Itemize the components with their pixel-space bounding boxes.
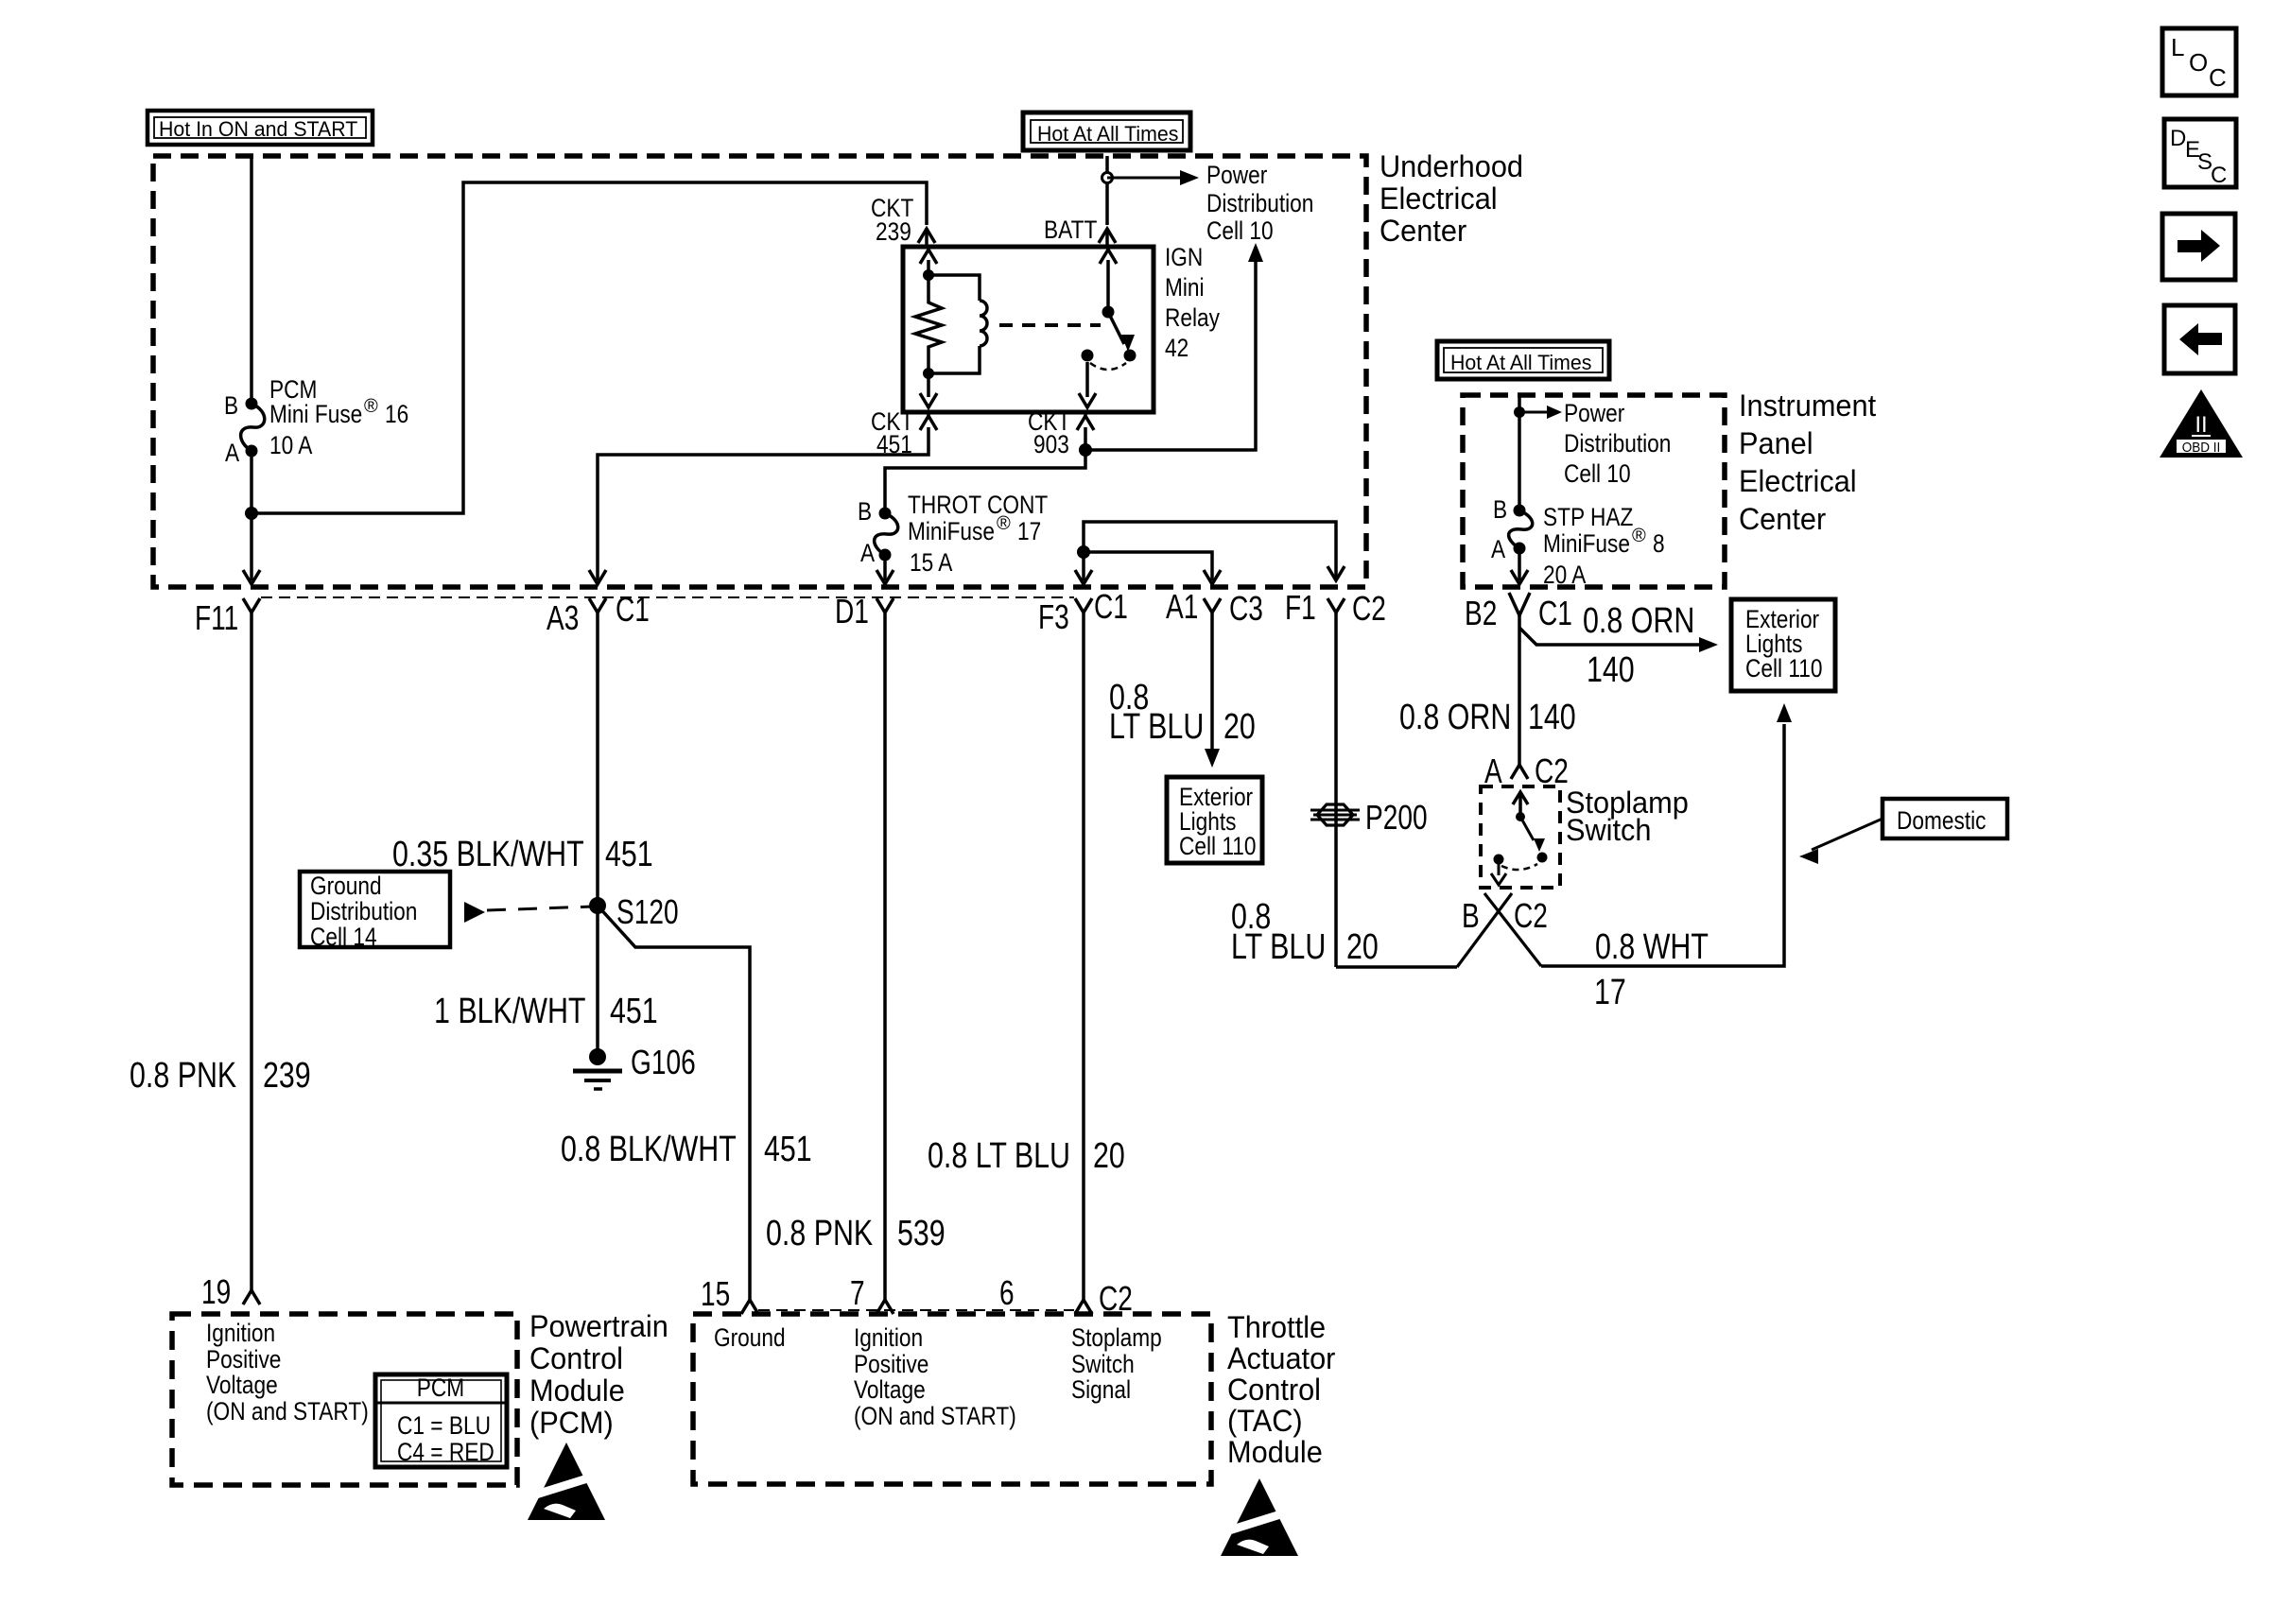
relay coil (inductor) branch [928,275,987,373]
label: C2 (F1) [1352,589,1386,628]
svg-text:C1: C1 [616,590,650,629]
relay switch blade [1108,312,1135,352]
svg-text:C2: C2 [1535,752,1569,790]
svg-text:42: 42 [1165,334,1189,362]
label: 0.8 LT BLU 20 [928,1136,1125,1176]
label: Ignition Positive Voltage (ON and START) [TAC] [854,1323,1016,1430]
junction dot on F3 riser [1077,545,1090,559]
connector F11 [243,598,260,1290]
svg-text:140: 140 [1528,698,1576,737]
svg-text:F1: F1 [1285,588,1316,627]
ESD symbol (TAC) [1214,1478,1305,1556]
svg-text:Distribution: Distribution [1206,189,1313,217]
stoplamp switch contact dot (left) [1494,855,1504,865]
connector A3/C1 [589,598,606,906]
instrument panel electrical center dashed box [1463,395,1725,587]
label: 0.8 ORN (horizontal) [1583,601,1694,641]
svg-text:C2: C2 [1514,896,1548,935]
svg-text:C: C [2211,163,2227,188]
svg-text:D1: D1 [835,592,869,631]
svg-text:Domestic: Domestic [1897,806,1987,835]
label: Power Distribution Cell 10 (top) [1206,161,1313,245]
svg-text:C2: C2 [1352,589,1386,628]
wire: branch to A1/C3 [1084,552,1221,584]
connector: CKT 451 out of relay [920,412,937,430]
connector F3/C1 [1075,598,1092,1300]
svg-text:Ignition: Ignition [854,1323,923,1352]
svg-text:Actuator: Actuator [1227,1341,1336,1375]
svg-text:C4 = RED: C4 = RED [397,1438,495,1466]
label: P200 [1365,798,1428,837]
svg-text:C1: C1 [1538,594,1572,632]
svg-text:Control: Control [1227,1373,1321,1407]
connector B2/C1 [1509,593,1530,628]
svg-text:20: 20 [1093,1136,1125,1176]
wire: 0.8 LT BLU 20 to F1/C2 [1336,965,1457,969]
svg-text:A3: A3 [547,598,579,637]
icon: LOC box [2162,28,2236,95]
svg-text:Powertrain: Powertrain [529,1309,668,1343]
header box: Hot In ON and START [147,111,373,145]
svg-text:D: D [2170,126,2186,151]
svg-text:Cell 110: Cell 110 [1179,832,1257,860]
fuse: PCM Mini Fuse 16 10A element [241,404,265,451]
svg-text:20: 20 [1223,707,1256,747]
svg-text:17: 17 [1017,517,1041,545]
connector D1 [876,598,894,1300]
label: Stoplamp Switch [1566,786,1689,847]
label: D1 [835,592,869,631]
wire: IP feed [1518,395,1521,510]
svg-text:LT BLU: LT BLU [1231,927,1326,967]
svg-text:F11: F11 [195,598,238,637]
label: Throttle Actuator Control (TAC) Module [1227,1310,1336,1469]
connector crossing B X C2 [1457,893,1541,967]
label: C2 (crossing) [1514,896,1548,935]
svg-text:®: ® [997,513,1011,534]
label: pin B (THROT fuse) [858,497,872,526]
label: Power Distribution Cell 10 (IP) [1564,399,1671,488]
relay coil top junction dot [923,269,934,281]
open circle junction on BATT wire [1102,173,1113,183]
svg-text:0.8 PNK: 0.8 PNK [766,1214,873,1253]
wire: F1/C2 riser and branch rail [1075,522,1345,584]
splice S120 dot [589,897,606,914]
fuse: STP HAZ MiniFuse 8 element [1509,510,1533,548]
connector line (underhood bottom, thin dashed) [261,596,1074,598]
svg-text:(PCM): (PCM) [529,1406,614,1440]
connector pin 6 [1075,1300,1092,1314]
fuse F8 pin A dot [1514,543,1526,555]
label: BATT [1044,216,1097,244]
svg-text:(ON and START): (ON and START) [206,1397,369,1425]
stoplamp switch input arrow [1513,792,1528,817]
stoplamp switch contact dot (right) [1537,853,1548,863]
connector pin 19 [243,1290,260,1304]
svg-text:®: ® [364,396,378,417]
connector A1/C3 [1204,598,1221,751]
svg-text:239: 239 [876,217,911,246]
wire: CKT903 branch to Power Distribution arrow [1085,243,1263,450]
svg-text:A: A [225,439,239,467]
svg-text:10 A: 10 A [269,431,312,459]
underhood electrical center dashed box [153,156,1366,587]
wire: CKT451 jog to A3/C1 [589,427,928,584]
fuse F16 pin B dot [246,398,258,410]
label: A (stoplamp pin) [1484,752,1502,790]
relay coil output arrow (down to CKT 451) [920,373,937,407]
svg-text:Electrical: Electrical [1739,464,1857,498]
label: 0.8 ORN 140 (vertical) [1399,698,1576,737]
svg-text:Stoplamp: Stoplamp [1071,1323,1162,1352]
label: 1 BLK/WHT 451 [434,992,658,1031]
icon: DESC box [2164,119,2236,188]
powertrain control module dashed box [172,1314,517,1485]
junction dot IP feed [1514,406,1525,418]
svg-text:0.8 PNK: 0.8 PNK [130,1056,236,1096]
label: pin A (THROT fuse) [860,539,875,567]
label: F11 [195,598,238,637]
fuse: THROT CONT MiniFuse 17 element [875,513,898,555]
throttle actuator control module dashed box [693,1314,1211,1484]
svg-text:451: 451 [610,992,658,1031]
svg-text:Mini Fuse: Mini Fuse [269,400,362,428]
label: 0.8 WHT [1595,927,1709,967]
svg-text:0.8 BLK/WHT: 0.8 BLK/WHT [561,1130,737,1169]
ground distribution cell 14 box [300,872,450,951]
svg-text:PCM: PCM [417,1373,464,1402]
relay switch pivot dot [1102,306,1115,319]
relay dashed actuation link (coil to switch) [999,323,1101,327]
svg-text:STP HAZ: STP HAZ [1543,503,1633,531]
svg-text:Center: Center [1379,214,1467,248]
svg-text:C3: C3 [1229,589,1263,628]
wire: S120 to G106 [596,906,599,1057]
arrow+dashed link to S120 [464,902,593,923]
label: A1 [1166,587,1198,626]
svg-text:17: 17 [1594,973,1626,1012]
label: Stoplamp Switch Signal [TAC] [1071,1323,1162,1404]
label: F1 [1285,588,1316,627]
label: 6 [999,1273,1015,1312]
svg-text:B: B [224,391,238,420]
wire: BATT feed from top border [1105,156,1109,225]
wire: fuse F17 to D1 connector [876,555,894,584]
relay switch output contact dot [1082,350,1094,362]
domestic callout box [1883,799,2007,838]
svg-text:15: 15 [701,1274,730,1313]
svg-text:O: O [2189,48,2208,77]
stoplamp switch blade [1520,817,1545,852]
label: Ignition Positive Voltage (ON and START) [PCM] [206,1319,369,1425]
icon: forward arrow box [2162,214,2235,280]
label: C2 (stoplamp pin) [1535,752,1569,790]
svg-text:Distribution: Distribution [1564,429,1671,458]
connector A/C2 (stoplamp) [1511,765,1528,779]
resistor inside relay [915,275,942,373]
svg-text:Power: Power [1564,399,1624,427]
svg-text:C1: C1 [1094,587,1128,626]
label: B2 [1465,594,1497,632]
svg-text:Throttle: Throttle [1227,1310,1326,1344]
label: 0.8 LT BLU 20 (crossing) [1231,897,1379,967]
label: pin B (STP HAZ fuse) [1493,495,1507,524]
stoplamp switch output arrow [1491,859,1506,885]
svg-text:A1: A1 [1166,587,1198,626]
label: Underhood Electrical Center [1379,149,1523,248]
connector pin 7 [876,1300,894,1314]
label: STP HAZ MiniFuse 8 20 A [1543,503,1665,589]
label: Powertrain Control Module (PCM) [529,1309,668,1440]
svg-text:P200: P200 [1365,798,1428,837]
label: C3 [1229,589,1263,628]
svg-text:THROT CONT: THROT CONT [908,491,1048,519]
PCM connector color table [375,1373,507,1467]
ESD symbol (PCM) [521,1443,612,1520]
svg-text:LT BLU: LT BLU [1109,707,1204,747]
label: F3 [1038,597,1069,636]
relay coil bottom junction dot [923,368,934,379]
relay K42 box [903,247,1154,412]
svg-text:1 BLK/WHT: 1 BLK/WHT [434,992,586,1031]
svg-text:0.8 ORN: 0.8 ORN [1583,601,1694,641]
stoplamp switch dashed box [1481,786,1560,888]
icon: OBD II triangle [2160,389,2243,458]
stoplamp switch pivot dot [1516,812,1525,821]
svg-text:Center: Center [1739,502,1827,536]
label: C1 (F3) [1094,587,1128,626]
svg-text:7: 7 [850,1273,865,1312]
arrow: domestic callout pointer [1799,819,1883,864]
label: A3 [547,598,579,637]
svg-text:Power: Power [1206,161,1267,189]
svg-text:®: ® [1632,526,1646,546]
label: C2 (TAC) [1099,1279,1133,1318]
wire: fuse F8 to B2/C1 [1511,548,1528,584]
svg-text:C: C [2209,63,2227,92]
wire: 0.8 ORN 140 branch to exterior lights (right) [1519,628,1718,652]
svg-text:Control: Control [529,1341,623,1375]
connector: BATT into relay [1099,229,1116,247]
svg-text:Switch: Switch [1071,1350,1135,1378]
svg-text:IGN: IGN [1165,243,1203,271]
svg-text:MiniFuse: MiniFuse [1543,529,1630,558]
svg-text:Ground: Ground [310,872,382,900]
svg-text:(TAC): (TAC) [1227,1404,1303,1438]
svg-text:Voltage: Voltage [206,1371,278,1399]
svg-text:20 A: 20 A [1543,561,1586,589]
relay switch common arrow (up, from BATT) [1100,250,1117,312]
svg-text:A: A [1484,752,1502,790]
wire: CKT903 down to branch dot [1084,427,1087,450]
svg-text:C2: C2 [1099,1279,1133,1318]
label: 7 [850,1273,865,1312]
wire: ORN 140 down to stoplamp switch [1518,628,1521,765]
svg-text:B: B [1493,495,1507,524]
label: 0.8 PNK 539 [766,1214,946,1253]
svg-text:451: 451 [605,835,653,874]
svg-text:Cell 110: Cell 110 [1745,654,1823,682]
svg-text:539: 539 [897,1214,946,1253]
svg-text:903: 903 [1033,430,1069,458]
svg-text:Cell 14: Cell 14 [310,923,377,951]
fuse F17 pin A dot [879,549,892,561]
junction dot on F11 wire [245,507,258,520]
svg-text:Instrument: Instrument [1739,389,1876,423]
svg-text:15 A: 15 A [910,548,952,577]
fuse F8 pin B dot [1514,505,1526,517]
svg-text:A: A [860,539,875,567]
svg-text:(ON and START): (ON and START) [854,1402,1016,1430]
wire: jog from fuse output to CKT239 feed [252,182,927,513]
svg-text:0.35 BLK/WHT: 0.35 BLK/WHT [392,835,584,874]
label: C1 (B2) [1538,594,1572,632]
label: CKT 239 [871,194,913,246]
svg-text:Electrical: Electrical [1379,181,1498,216]
svg-text:BATT: BATT [1044,216,1097,244]
svg-text:Module: Module [1227,1435,1323,1469]
svg-text:C1 = BLU: C1 = BLU [397,1411,491,1440]
exterior lights cell 110 box (left) [1167,777,1262,863]
svg-text:0.8 LT BLU: 0.8 LT BLU [928,1136,1070,1176]
label: B (crossing) [1462,896,1480,935]
relay coil feed arrow (up, left pin) [920,250,937,275]
header box: Hot At All Times (instrument panel) [1437,341,1609,379]
label: 0.8 BLK/WHT 451 [561,1130,812,1169]
relay switch output arrow (down to CKT 903) [1079,362,1096,407]
svg-text:Distribution: Distribution [310,897,417,925]
svg-text:451: 451 [764,1130,812,1169]
svg-text:239: 239 [263,1056,311,1096]
label: THROT CONT MiniFuse 17 15 A [908,491,1048,577]
svg-text:G106: G106 [631,1043,696,1081]
svg-text:Signal: Signal [1071,1375,1131,1404]
label: 17 [1594,973,1626,1012]
svg-text:6: 6 [999,1273,1015,1312]
arrow: to Power Distribution Cell 10 (IP) [1519,406,1562,419]
stoplamp switch dashed travel arc [1501,864,1537,870]
svg-text:L: L [2171,33,2184,61]
label: 15 [701,1274,730,1313]
connector pin 15 [741,1300,758,1314]
label: CKT 451 [871,407,913,458]
svg-text:Panel: Panel [1739,426,1813,460]
svg-text:Positive: Positive [854,1350,928,1378]
svg-text:Ground: Ground [714,1323,786,1352]
fuse F17 pin B dot [879,508,892,520]
label: pin B (PCM fuse) [224,391,238,420]
label: 0.35 BLK/WHT 451 [392,835,653,874]
wire: hot feed into PCM fuse (F11 branch) [250,156,253,404]
label: IGN Mini Relay 42 [1165,243,1220,362]
svg-text:19: 19 [201,1272,231,1311]
svg-text:B: B [1462,896,1480,935]
label: Ground [TAC] [714,1323,786,1352]
svg-text:Switch: Switch [1566,813,1652,847]
svg-text:0.8 WHT: 0.8 WHT [1595,927,1709,967]
svg-text:Cell 10: Cell 10 [1564,459,1631,488]
wire: fuse A down to F11 connector [243,451,260,584]
label: CKT 903 [1028,407,1070,458]
header box: Hot At All Times (underhood) [1023,112,1190,150]
label: 0.8 LT BLU 20 (A1 branch) [1109,678,1256,747]
label: pin A (STP HAZ fuse) [1491,535,1505,563]
svg-text:B: B [858,497,872,526]
arrow into exterior lights cell 110 (left) [1205,749,1220,768]
svg-text:A: A [1491,535,1505,563]
label: S120 [616,892,679,931]
svg-text:Cell 10: Cell 10 [1206,216,1274,245]
label: 19 [201,1272,231,1311]
ground G106 symbol [573,1048,622,1089]
grommet P200 [1310,804,1360,825]
label: pin A (PCM fuse) [225,439,239,467]
connector: CKT 239 into relay [918,229,935,247]
svg-text:II: II [2195,412,2207,438]
svg-text:140: 140 [1587,650,1635,690]
label: Instrument Panel Electrical Center [1739,389,1876,536]
svg-text:B2: B2 [1465,594,1497,632]
connector F1/C2 [1327,598,1345,967]
svg-text:S120: S120 [616,892,679,931]
fuse F16 pin A dot [246,445,258,458]
arrow: branch to Power Distribution Cell 10 [1107,170,1199,185]
icon: back arrow box [2164,305,2235,373]
wire: 0.8 WHT 17 to exterior lights [1541,703,1792,966]
label: 0.8 PNK 239 [130,1056,311,1096]
label: C1 (A3) [616,590,650,629]
relay switch blade tip dot [1124,350,1136,362]
wire: S120 branch to TAC ground pin 15 [598,906,750,1300]
svg-text:F3: F3 [1038,597,1069,636]
label: G106 [631,1043,696,1081]
wire: CKT903 to THROT CONT fuse [885,450,1085,513]
svg-text:Relay: Relay [1165,303,1220,332]
junction dot CKT903 branch [1079,443,1092,457]
label: 140 (horizontal) [1587,650,1635,690]
svg-text:MiniFuse: MiniFuse [908,517,995,545]
svg-text:Hot At All Times: Hot At All Times [1450,351,1591,374]
svg-text:OBD II: OBD II [2182,440,2221,456]
svg-text:Module: Module [529,1373,625,1408]
svg-text:0.8 ORN: 0.8 ORN [1399,698,1511,737]
svg-text:Hot In ON and START: Hot In ON and START [159,117,357,141]
svg-text:Ignition: Ignition [206,1319,275,1347]
relay switch dashed travel arc [1090,363,1126,370]
svg-text:Positive: Positive [206,1345,281,1373]
svg-text:Voltage: Voltage [854,1375,926,1404]
svg-text:8: 8 [1653,529,1665,558]
svg-text:20: 20 [1346,927,1379,967]
svg-text:Mini: Mini [1165,273,1205,302]
connector line (TAC top, thin dashed) [758,1309,1074,1311]
svg-text:16: 16 [385,400,408,428]
svg-text:Hot At All Times: Hot At All Times [1037,122,1178,146]
label: PCM Mini Fuse 16 10 A [269,375,408,459]
exterior lights cell 110 box (right) [1731,599,1835,691]
svg-text:Underhood: Underhood [1379,149,1523,183]
connector: CKT 903 out of relay [1077,412,1094,430]
